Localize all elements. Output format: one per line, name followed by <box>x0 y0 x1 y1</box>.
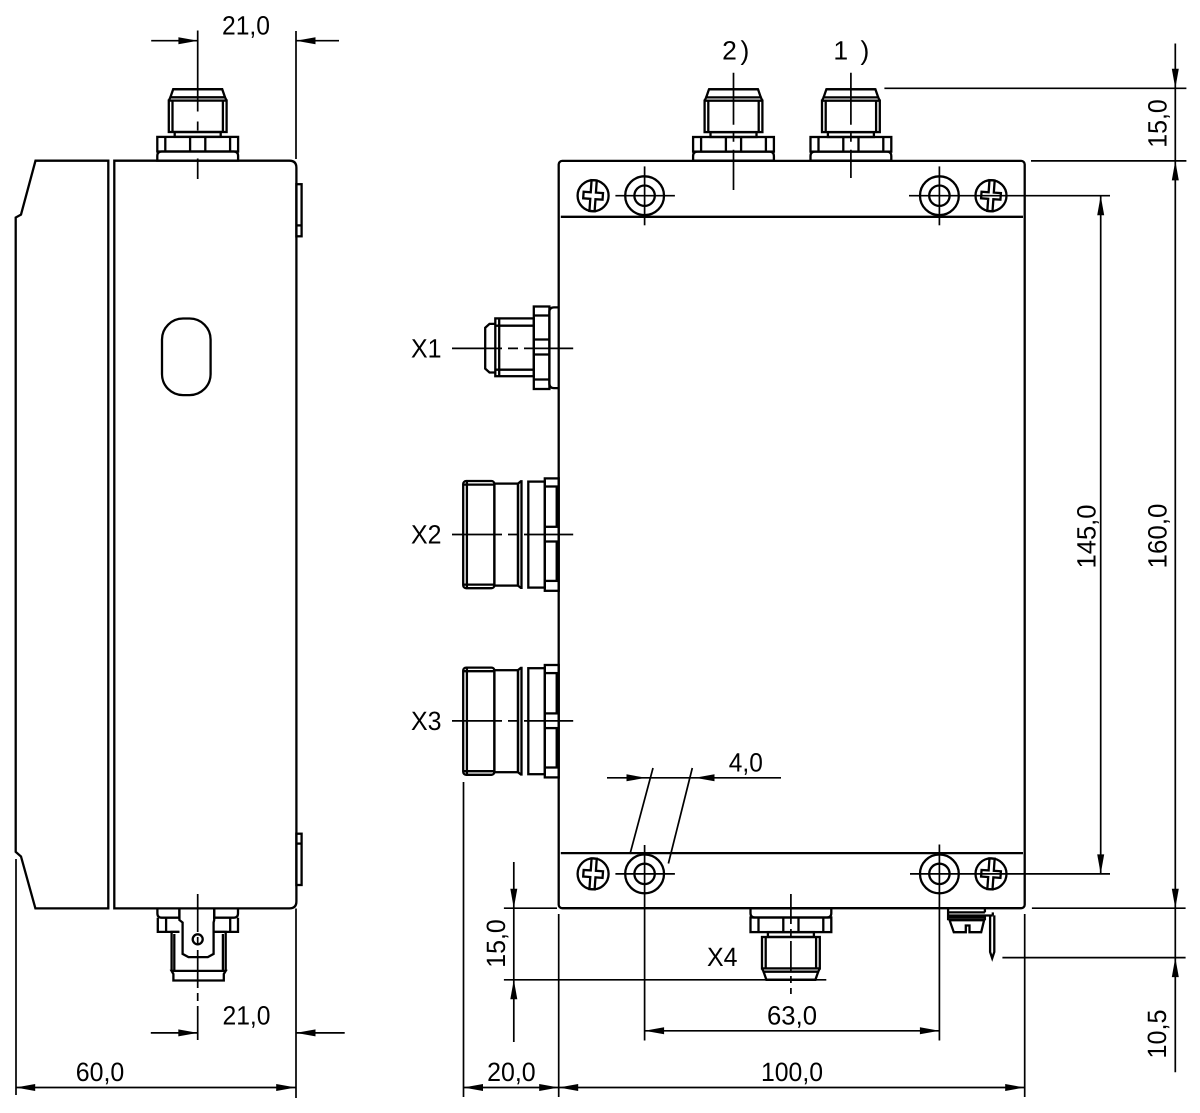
side view bottom connector tab hole <box>193 934 203 944</box>
svg-text:4,0: 4,0 <box>729 748 763 778</box>
hole bottom right crosshair <box>910 873 1110 875</box>
front view main box <box>559 161 1025 908</box>
DIN rail clip bucket <box>950 920 985 932</box>
dimension 60,0: extension lines <box>15 859 17 1095</box>
dimension 20,0/100,0: extension lines <box>463 782 465 1097</box>
side view bottom connector nut ears <box>158 918 238 932</box>
svg-text:1: 1 <box>833 36 848 66</box>
svg-text:): ) <box>740 36 749 66</box>
dimension 4,0: oblique extension lines <box>630 768 653 854</box>
phillips screw bottom right <box>976 858 1007 890</box>
svg-text:X1: X1 <box>411 334 442 364</box>
hole top left crosshair <box>615 195 675 197</box>
svg-text:10,5: 10,5 <box>1142 1010 1172 1059</box>
phillips screw top left <box>578 180 609 212</box>
connector X1 centerline <box>452 347 573 349</box>
top connector 2) centerline <box>733 73 735 190</box>
DIN rail clip bands <box>948 908 985 920</box>
svg-text:100,0: 100,0 <box>761 1057 823 1087</box>
front view bottom plate line <box>561 852 1023 854</box>
dimension 145,0: dim line <box>1100 196 1102 874</box>
mounting hole bottom right <box>920 855 959 894</box>
dimension 21,0 top: extension line right <box>295 31 297 159</box>
svg-text:63,0: 63,0 <box>767 1001 817 1031</box>
svg-text:21,0: 21,0 <box>222 10 270 40</box>
hole bottom left crosshair <box>615 873 675 875</box>
hole top right crosshair <box>909 195 1110 197</box>
dimension 60,0: dim line <box>16 1087 296 1089</box>
svg-text:160,0: 160,0 <box>1143 504 1173 569</box>
side view back plate <box>16 161 109 909</box>
dimension 15,0 bottom left: extension lines <box>504 907 557 909</box>
dimension 15,0 bottom left: dim line <box>513 862 515 1042</box>
side view bottom clip <box>296 834 301 885</box>
svg-text:X3: X3 <box>411 706 442 736</box>
connector X4 <box>751 908 832 979</box>
dimension 10,5: extension lines <box>1032 907 1186 909</box>
connector X3 centerline <box>452 720 573 722</box>
mounting hole top right <box>920 176 959 215</box>
mounting hole bottom left <box>625 855 664 894</box>
connector X1 tip <box>485 324 495 373</box>
dimension 63,0: dim line <box>645 1030 940 1032</box>
side view top clip <box>296 184 301 236</box>
connector X3 <box>463 665 559 777</box>
dimension line vertical right 15,0/160,0/10,5 <box>1174 44 1176 1073</box>
svg-text:21,0: 21,0 <box>223 1001 271 1031</box>
top connector 2) <box>693 89 774 160</box>
side view bottom connector washer <box>157 908 238 918</box>
mounting hole top left <box>625 176 664 215</box>
svg-text:60,0: 60,0 <box>76 1057 125 1087</box>
connector X2 <box>463 478 559 590</box>
svg-text:): ) <box>860 36 869 66</box>
side view bottom connector cap <box>172 971 226 981</box>
side view bottom connector body <box>172 932 226 971</box>
dimension 21,0 top: dim line <box>151 40 198 42</box>
svg-text:X4: X4 <box>707 942 738 972</box>
svg-text:15,0: 15,0 <box>481 919 511 968</box>
front view top plate line <box>561 216 1023 218</box>
side view top connector <box>157 89 238 160</box>
side view bottom connector centerline <box>197 894 199 1040</box>
dimension 21,0 bottom: dim line <box>151 1032 198 1034</box>
side view top connector centerline <box>197 31 199 180</box>
svg-text:145,0: 145,0 <box>1072 505 1102 569</box>
connector X1 nut <box>534 307 550 390</box>
connector X1 washer <box>549 307 558 388</box>
side view oval cutout <box>162 319 211 396</box>
dimension 4,0: dim line <box>607 777 781 779</box>
svg-text:20,0: 20,0 <box>487 1057 536 1087</box>
connector X2 centerline <box>452 534 573 536</box>
top connector 1) centerline <box>850 73 852 178</box>
dimension 15,0 top right: extension lines <box>884 87 1186 89</box>
dimension 20,0/100,0: dim line <box>464 1087 1025 1089</box>
side view main body <box>114 161 296 909</box>
DIN rail clip blade <box>990 915 994 958</box>
top connector 1) <box>811 89 892 160</box>
connector X4 centerline <box>790 894 792 994</box>
svg-text:2: 2 <box>722 36 737 66</box>
svg-text:15,0: 15,0 <box>1143 99 1173 148</box>
phillips screw top right <box>976 180 1007 212</box>
phillips screw bottom left <box>578 858 609 890</box>
side view bottom connector tab <box>179 910 214 958</box>
svg-text:X2: X2 <box>411 520 442 550</box>
connector X1 body <box>495 318 534 376</box>
